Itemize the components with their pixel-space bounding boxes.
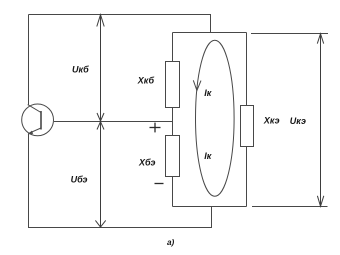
svg-text:Хкэ: Хкэ — [263, 116, 280, 126]
dimension Uкэ reference bottom — [252, 206, 328, 208]
wire inner box left segment 1 — [172, 33, 174, 62]
dimension Uкэ reference top — [251, 33, 328, 35]
svg-text:Uбэ: Uбэ — [71, 174, 88, 184]
wire bottom — [28, 207, 212, 228]
dimension Uкб — [97, 15, 104, 122]
plus sign — [150, 123, 161, 133]
wire left upper — [28, 15, 30, 105]
resistor Xкэ — [241, 106, 280, 147]
resistor Xкб — [137, 62, 180, 108]
svg-text:Хбэ: Хбэ — [138, 157, 155, 167]
svg-text:а): а) — [167, 238, 175, 247]
svg-text:Хкб: Хкб — [137, 76, 155, 86]
current loop ellipse — [193, 40, 234, 196]
minus sign — [155, 183, 164, 185]
wire inner box bottom — [173, 206, 247, 208]
svg-text:Iк: Iк — [204, 88, 212, 98]
wire base — [54, 121, 173, 123]
resistor Xбэ — [138, 136, 180, 177]
wire inner box right segment 1 — [246, 33, 248, 106]
transistor VT1 — [22, 104, 54, 136]
wire left lower — [28, 134, 30, 228]
wire inner box left segment 3 — [172, 177, 174, 207]
svg-text:Uкб: Uкб — [72, 64, 89, 74]
wire inner box top — [173, 32, 247, 34]
wire inner box left segment 2 — [172, 108, 174, 136]
wire top — [29, 15, 211, 33]
dimension Uкэ — [317, 34, 324, 207]
wire inner box right segment 2 — [246, 147, 248, 207]
svg-text:Iк: Iк — [204, 151, 212, 161]
svg-text:Uкэ: Uкэ — [290, 116, 306, 126]
dimension Uбэ — [95, 122, 105, 228]
